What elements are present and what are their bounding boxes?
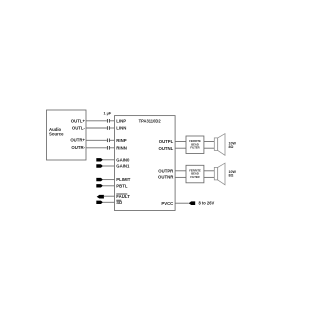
svg-text:OUTL-: OUTL-	[72, 126, 86, 131]
svg-text:FILTER: FILTER	[190, 146, 199, 150]
terminal GAIN1	[96, 164, 114, 167]
wire filter to speaker R -	[204, 176, 214, 178]
pin SD (active low)	[116, 200, 122, 205]
svg-text:GAIN0: GAIN0	[116, 157, 130, 162]
terminal PVCC supply	[189, 201, 196, 205]
svg-text:FILTER: FILTER	[190, 175, 199, 179]
speaker left	[214, 134, 225, 156]
op-amp U1 TPA3110D2	[115, 116, 176, 211]
svg-text:8Ω: 8Ω	[229, 173, 234, 177]
wire OUTR- to C4	[86, 147, 107, 149]
capacitor C1	[107, 119, 109, 123]
audio source box	[47, 110, 87, 160]
capacitor C2	[107, 126, 109, 130]
capacitor C3	[107, 139, 109, 143]
svg-text:OUTR+: OUTR+	[70, 138, 85, 143]
svg-text:RINP: RINP	[116, 138, 126, 143]
svg-text:OUTPL: OUTPL	[159, 139, 174, 144]
capacitor C4	[107, 146, 109, 150]
ferrite bead filter (left channel)	[186, 136, 204, 154]
svg-text:LINN: LINN	[116, 126, 126, 131]
svg-text:8Ω: 8Ω	[229, 145, 234, 149]
wire OUTNR to filter	[175, 176, 186, 178]
svg-text:RINN: RINN	[116, 145, 127, 150]
svg-text:SD: SD	[116, 200, 122, 205]
pin FAULT (active low)	[116, 194, 130, 199]
svg-text:1 µF: 1 µF	[104, 112, 112, 116]
svg-text:GAIN1: GAIN1	[116, 164, 130, 169]
svg-text:LINP: LINP	[116, 118, 126, 123]
terminal PLIMIT	[96, 178, 114, 181]
wire filter to speaker L +	[204, 141, 214, 143]
svg-text:FAULT: FAULT	[116, 194, 130, 199]
svg-text:PLIMIT: PLIMIT	[116, 177, 130, 182]
svg-text:PBTL: PBTL	[116, 183, 128, 188]
svg-text:OUTPR: OUTPR	[158, 168, 174, 173]
svg-text:OUTNR: OUTNR	[158, 174, 174, 179]
wire C4 to RINN	[110, 147, 115, 149]
wire OUTPL to filter	[175, 141, 186, 143]
wire OUTL+ to C1	[86, 120, 107, 122]
terminal GAIN0	[96, 158, 114, 161]
wire C3 to RINP	[110, 139, 115, 141]
svg-text:8 to 26V: 8 to 26V	[199, 201, 215, 206]
svg-text:Source: Source	[49, 132, 64, 137]
wire C2 to LINN	[110, 127, 115, 129]
ferrite bead filter (right channel)	[186, 165, 204, 183]
wire filter to speaker R +	[204, 170, 214, 172]
wire PVCC to supply terminal	[175, 202, 189, 204]
speaker left rating 10W 8ohm	[229, 141, 237, 149]
wire OUTPR to filter	[175, 170, 186, 172]
terminal FAULT	[97, 195, 115, 199]
terminal PBTL	[96, 184, 114, 187]
wire OUTNL to filter	[175, 147, 186, 149]
svg-text:OUTR-: OUTR-	[71, 145, 85, 150]
svg-text:PVCC: PVCC	[161, 201, 173, 206]
wire C1 to LINP	[110, 120, 115, 122]
svg-text:TPA3110D2: TPA3110D2	[139, 119, 162, 124]
speaker right rating 10W 8ohm	[229, 170, 237, 178]
svg-text:OUTNL: OUTNL	[158, 146, 173, 151]
wire OUTL- to C2	[86, 127, 107, 129]
svg-text:OUTL+: OUTL+	[71, 118, 86, 123]
wire filter to speaker L -	[204, 147, 214, 149]
speaker right	[214, 163, 225, 185]
terminal SD	[96, 201, 114, 204]
wire OUTR+ to C3	[86, 139, 107, 141]
